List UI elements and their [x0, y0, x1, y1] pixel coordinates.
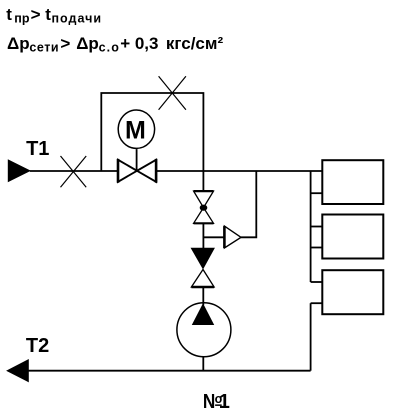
radiator 1 [322, 160, 383, 204]
dot in balancing valve [200, 205, 208, 211]
svg-text:Δp: Δp [7, 34, 30, 53]
pressure regulator triangle [224, 226, 241, 248]
svg-text:пр: пр [14, 12, 30, 26]
balancing valve with dot [194, 191, 214, 223]
wire: T2 return line [28, 370, 310, 372]
condition text line 1: t_pr > t_podachi [6, 5, 102, 26]
svg-text:сети: сети [29, 40, 59, 54]
control valve on T1 (bowtie) [118, 160, 156, 182]
motor actuator M circle [118, 110, 154, 148]
svg-text:N: N [203, 390, 215, 413]
stub radiator2 return [311, 247, 322, 249]
svg-text:>: > [31, 5, 41, 24]
svg-text:1: 1 [219, 391, 230, 413]
closed valve cross on bypass [159, 76, 186, 110]
actuator stem [136, 149, 138, 171]
radiator riser lower segment [310, 303, 312, 371]
radiator 3 [322, 270, 383, 314]
svg-text:t: t [6, 5, 12, 24]
pump rotor triangle [193, 304, 214, 324]
svg-text:M: M [125, 117, 146, 145]
svg-text:>: > [60, 34, 70, 53]
check valve (half filled) [191, 248, 214, 268]
bypass pipe [101, 93, 203, 171]
svg-text:t: t [45, 5, 51, 24]
impulse line to regulator [203, 236, 224, 238]
svg-text:кгс/см²: кгс/см² [166, 34, 224, 53]
svg-text:T2: T2 [26, 335, 49, 357]
wire: drop from T1 to balancing valve [202, 171, 204, 191]
pump stem top [202, 303, 204, 305]
svg-text:подачи: подачи [52, 12, 103, 26]
wire: T1 supply line [30, 170, 322, 172]
wire: pump to T2 [202, 357, 204, 371]
pump circle [177, 303, 231, 357]
supply arrow T1 [8, 160, 30, 182]
wire: check valve to pump [202, 287, 204, 305]
return arrow T2 [7, 360, 28, 382]
stub radiator3 supply [311, 281, 322, 283]
stub radiator3 return [311, 302, 322, 304]
radiator riser upper segment [310, 171, 312, 282]
impulse line from regulator to T1 [241, 171, 256, 237]
svg-text:+ 0,3: + 0,3 [120, 34, 158, 53]
wire: balancing valve to check valve [202, 223, 204, 248]
svg-text:Δp: Δp [76, 34, 99, 53]
condition text line 2: dP_seti > dP_s.o + 0,3 kgs/cm2 [7, 34, 223, 55]
radiator 2 [322, 215, 383, 259]
closed valve cross on T1 [61, 156, 87, 187]
stub radiator1 return [311, 192, 322, 194]
stub radiator2 supply [311, 226, 322, 228]
svg-text:с.о: с.о [99, 40, 120, 54]
svg-text:T1: T1 [26, 138, 49, 160]
